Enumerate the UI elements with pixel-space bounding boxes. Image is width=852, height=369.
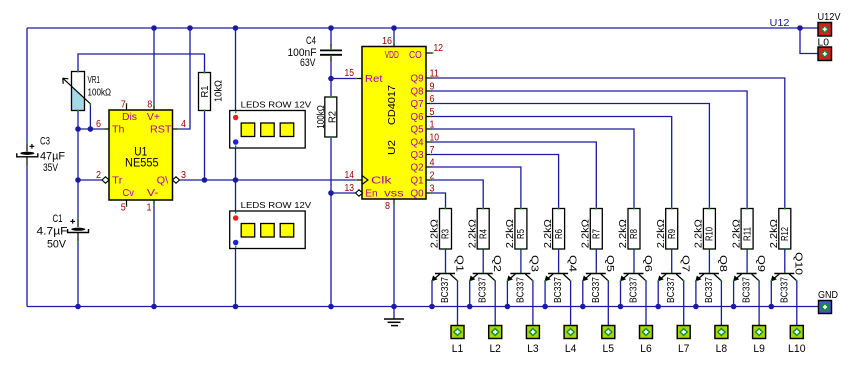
R7 name label xyxy=(592,229,603,239)
svg-text:R1: R1 xyxy=(200,85,211,97)
R6 value label 2.2k&#937; xyxy=(543,219,554,249)
U2 pin name Q1 xyxy=(411,176,424,187)
U2 pin name Q3 xyxy=(411,150,424,161)
Q3 name label xyxy=(529,255,540,273)
U2 pin name Clk xyxy=(371,176,393,187)
wire Q2 collector to L2 xyxy=(494,281,496,326)
svg-text:R10: R10 xyxy=(705,227,716,241)
U2 pin name Ret xyxy=(365,74,383,85)
U2 pin name Q2 xyxy=(411,163,424,174)
U2 pin number 16 xyxy=(382,36,392,47)
wire Q7 to R10 xyxy=(426,104,709,209)
svg-text:BC337: BC337 xyxy=(629,277,640,303)
svg-text:BC337: BC337 xyxy=(779,277,790,303)
transistor Q9 BC337 xyxy=(734,272,760,282)
resistor R12 xyxy=(779,208,791,251)
Q2 value label BC337 xyxy=(478,277,489,303)
svg-text:4.7µF: 4.7µF xyxy=(37,226,68,238)
junction C1 / ground bus xyxy=(75,304,81,310)
LED row 2 anode dot xyxy=(233,215,239,221)
U1 pin number 2 xyxy=(96,170,101,181)
svg-text:Q5: Q5 xyxy=(411,125,424,136)
U2 pin number 14 xyxy=(345,170,355,181)
svg-text:2.2kΩ: 2.2kΩ xyxy=(505,219,516,249)
wire VR1 wiper drop xyxy=(89,104,91,129)
Q8 value label BC337 xyxy=(704,277,715,303)
R2 name label xyxy=(328,111,339,123)
junction LED row 2 / ground bus xyxy=(233,304,239,310)
svg-text:13: 13 xyxy=(345,183,355,194)
svg-text:VR1: VR1 xyxy=(88,75,101,86)
wire top +12V rail xyxy=(27,27,818,29)
wire Q7 collector to L7 xyxy=(683,281,685,326)
U2 pin name Q7 xyxy=(411,99,424,110)
resistor R11 xyxy=(741,208,753,251)
wire R4 to Q2 base xyxy=(482,249,484,273)
svg-text:RST: RST xyxy=(150,125,172,136)
svg-text:Q7: Q7 xyxy=(680,255,691,273)
U2 pin name Q0 xyxy=(411,189,424,200)
wire Q2 to R5 xyxy=(426,167,521,209)
wire Tr pin 2 xyxy=(78,179,102,181)
svg-text:Q2: Q2 xyxy=(491,255,502,273)
U2 pin name Q4 xyxy=(411,138,424,149)
U1 pin 3 Q output diamond xyxy=(173,177,180,183)
junction Q9 emitter / ground bus xyxy=(731,304,737,310)
Q5 value label BC337 xyxy=(591,277,602,303)
junction V- / ground bus xyxy=(151,304,157,310)
Q7 value label BC337 xyxy=(666,277,677,303)
resistor R2 xyxy=(325,96,337,138)
junction Th node xyxy=(75,126,81,132)
svg-text:L8: L8 xyxy=(716,343,728,355)
svg-text:7: 7 xyxy=(430,145,435,156)
Q6 name label xyxy=(642,255,653,273)
U2 pin number 10 xyxy=(430,133,440,144)
svg-text:Q6: Q6 xyxy=(642,255,653,273)
wire C4 top drop xyxy=(330,28,332,45)
junction Q7 emitter / ground bus xyxy=(655,304,661,310)
connector GND xyxy=(819,301,832,314)
counter U2 CD4017 body xyxy=(356,41,434,206)
svg-text:Q9: Q9 xyxy=(755,255,766,273)
transistor Q3 BC337 xyxy=(507,272,533,282)
R10 name label xyxy=(705,227,716,241)
connector L5 label xyxy=(603,343,615,355)
U2 pin number 15 xyxy=(345,68,355,79)
U2 pin name VDD xyxy=(385,50,399,61)
capacitor C4 xyxy=(320,44,342,61)
svg-text:Q9: Q9 xyxy=(411,74,424,85)
svg-text:BC337: BC337 xyxy=(742,277,753,303)
junction top rail / RST xyxy=(187,25,193,31)
junction top rail / LED row 1 xyxy=(233,25,239,31)
svg-text:BC337: BC337 xyxy=(591,277,602,303)
svg-text:V+: V+ xyxy=(147,112,160,123)
connector L1 label xyxy=(452,343,464,355)
U1 pin 2 Tr input diamond xyxy=(102,177,109,183)
U1 pin name Cv xyxy=(123,188,135,199)
svg-text:Q\: Q\ xyxy=(157,176,169,187)
wire R2 bottom to En and ground bus xyxy=(330,137,332,307)
svg-text:NE555: NE555 xyxy=(125,158,159,170)
wire VSS pin 8 to ground bus xyxy=(393,204,395,307)
potentiometer VR1 xyxy=(63,71,91,112)
node U12 label xyxy=(770,17,790,29)
svg-text:63V: 63V xyxy=(300,57,316,69)
svg-text:2.2kΩ: 2.2kΩ xyxy=(731,219,742,249)
svg-text:Th: Th xyxy=(112,125,125,136)
wire R1 bottom to Q output line xyxy=(204,111,206,181)
C3 voltage label 35V xyxy=(43,162,59,174)
C1 name label xyxy=(53,213,63,225)
svg-text:8: 8 xyxy=(147,100,152,111)
resistor R3 xyxy=(440,208,452,251)
U2 Clk input triangle xyxy=(362,176,368,185)
svg-text:3: 3 xyxy=(430,184,435,195)
connector L4 xyxy=(564,326,577,339)
U2 pin number 1 xyxy=(430,120,435,131)
wire V- pin 1 to ground bus xyxy=(153,205,155,307)
connector L9 xyxy=(753,326,766,339)
connector L7 xyxy=(677,326,690,339)
Q1 name label xyxy=(453,255,464,273)
junction top rail / VDD xyxy=(391,25,397,31)
svg-text:47µF: 47µF xyxy=(40,151,65,163)
U1 pin number 6 xyxy=(96,119,101,130)
LED row module 2 body xyxy=(230,211,306,249)
svg-text:2.2kΩ: 2.2kΩ xyxy=(543,219,554,249)
svg-text:5: 5 xyxy=(121,203,126,214)
resistor R4 xyxy=(477,208,489,251)
U1 pin name V- xyxy=(147,188,159,199)
wire Q9 collector to L9 xyxy=(758,281,760,326)
connector L4 label xyxy=(565,343,577,355)
svg-text:GND: GND xyxy=(818,290,838,301)
U2 pin number 12 xyxy=(434,43,444,54)
svg-text:CD4017: CD4017 xyxy=(387,85,398,125)
U2 pin number 7 xyxy=(430,145,435,156)
connector L7 label xyxy=(678,343,690,355)
svg-text:R9: R9 xyxy=(667,229,678,239)
svg-text:Q10: Q10 xyxy=(793,252,804,276)
svg-text:2: 2 xyxy=(96,170,101,181)
C4 voltage label 63V xyxy=(300,57,316,69)
R2 value label 100k&#937; xyxy=(316,105,327,129)
Q9 value label BC337 xyxy=(742,277,753,303)
U1 pin name Tr xyxy=(112,176,123,187)
wire VR1 bottom / C1 vertical xyxy=(77,111,79,218)
capacitor C3 (polarized) xyxy=(17,142,38,167)
junction Q2 emitter / ground bus xyxy=(467,304,473,310)
wire Th node horizontal xyxy=(78,128,104,130)
svg-text:Q1: Q1 xyxy=(453,255,464,273)
svg-text:C1: C1 xyxy=(53,213,63,225)
U1 pin name Q\ xyxy=(157,176,169,187)
svg-text:100kΩ: 100kΩ xyxy=(88,88,112,99)
wire Q8 emitter to ground bus xyxy=(695,281,697,307)
svg-text:2.2kΩ: 2.2kΩ xyxy=(769,219,780,249)
svg-text:R7: R7 xyxy=(592,229,603,239)
svg-text:R6: R6 xyxy=(554,229,565,239)
wire Q9 emitter to ground bus xyxy=(733,281,735,307)
resistor R10 xyxy=(703,208,715,251)
U1 pin number 7 xyxy=(121,100,126,111)
svg-text:vss: vss xyxy=(384,189,404,200)
svg-text:Q5: Q5 xyxy=(604,255,615,273)
junction Q1 emitter / ground bus xyxy=(429,304,435,310)
U2 pin number 13 xyxy=(345,183,355,194)
U2 pin number 8 xyxy=(385,201,390,212)
wire Q6 collector to L6 xyxy=(645,281,647,326)
wire Q8 collector to L8 xyxy=(720,281,722,326)
Q8 name label xyxy=(717,255,728,273)
U1 pin name Dis xyxy=(122,112,137,123)
svg-text:R3: R3 xyxy=(441,229,452,239)
connector L10 label xyxy=(788,343,806,355)
LED row 1 cathode dot xyxy=(233,139,239,145)
U2 pin name CO xyxy=(409,50,422,61)
op-amp timer U1 NE555 body xyxy=(103,103,179,207)
junction top rail / C4 xyxy=(328,25,334,31)
U1 pin number 4 xyxy=(181,119,186,130)
R3 name label xyxy=(441,229,452,239)
transistor Q2 BC337 xyxy=(470,272,496,282)
svg-text:L0: L0 xyxy=(818,38,830,49)
transistor Q5 BC337 xyxy=(583,272,609,282)
junction Q8 emitter / ground bus xyxy=(693,304,699,310)
svg-text:BC337: BC337 xyxy=(704,277,715,303)
connector L10 xyxy=(790,326,803,339)
C1 voltage label 50V xyxy=(47,239,67,251)
wire RST pin 4 to top rail xyxy=(178,28,190,129)
wire Q10 collector to L10 xyxy=(796,281,798,326)
wire Q0 to R3 xyxy=(426,193,446,209)
wire Q3 collector to L3 xyxy=(532,281,534,326)
connector L2 xyxy=(489,326,502,339)
U2 pin number 5 xyxy=(430,107,435,118)
svg-text:Dis: Dis xyxy=(122,112,137,123)
wire Q6 to R9 xyxy=(426,117,672,209)
LED row 1 pin ticks xyxy=(235,111,237,147)
transistor Q4 BC337 xyxy=(545,272,571,282)
U1 pin number 1 xyxy=(147,203,152,214)
U2 pin name En xyxy=(365,189,377,200)
svg-text:L7: L7 xyxy=(678,343,690,355)
U2 pin name Q5 xyxy=(411,125,424,136)
svg-text:Q7: Q7 xyxy=(411,99,424,110)
svg-text:2.2kΩ: 2.2kΩ xyxy=(656,219,667,249)
R3 value label 2.2k&#937; xyxy=(430,219,441,249)
R4 value label 2.2k&#937; xyxy=(467,219,478,249)
wire VR1 top to R1 top xyxy=(78,54,205,73)
R9 value label 2.2k&#937; xyxy=(656,219,667,249)
svg-text:L10: L10 xyxy=(788,343,806,355)
svg-text:5: 5 xyxy=(430,107,435,118)
svg-text:Q4: Q4 xyxy=(566,255,577,273)
wire Q2 emitter to ground bus xyxy=(469,281,471,307)
svg-text:Ret: Ret xyxy=(365,74,383,85)
U2 value label CD4017 xyxy=(387,85,398,125)
wire Q4 emitter to ground bus xyxy=(544,281,546,307)
svg-text:2: 2 xyxy=(430,171,435,182)
capacitor C1 (polarized) xyxy=(68,218,89,243)
R7 value label 2.2k&#937; xyxy=(581,219,592,249)
resistor R6 xyxy=(553,208,565,251)
LED row 2 label LEDS ROW 12V xyxy=(241,201,312,210)
svg-text:100kΩ: 100kΩ xyxy=(316,105,327,129)
LED row 2 pin ticks xyxy=(235,212,237,248)
svg-text:Cv: Cv xyxy=(123,188,135,199)
junction R2 / En xyxy=(328,190,334,196)
svg-text:R4: R4 xyxy=(478,229,489,239)
wire left rail upper segment xyxy=(26,28,28,143)
wire Q8 to R11 xyxy=(426,91,747,209)
transistor Q7 BC337 xyxy=(658,272,684,282)
VR1 value label 100k&#937; xyxy=(88,88,112,99)
svg-text:Q6: Q6 xyxy=(411,112,424,123)
wire VDD pin 16 drop xyxy=(393,28,395,42)
wire U12 node to connectors xyxy=(800,28,818,54)
wire C4 bottom to Ret pin 15 xyxy=(331,61,356,79)
svg-text:50V: 50V xyxy=(47,239,67,251)
R11 value label 2.2k&#937; xyxy=(731,219,742,249)
junction R1 / Q line xyxy=(202,177,208,183)
resistor R1 xyxy=(199,72,211,112)
LED row 1 anode dot xyxy=(233,115,239,121)
wire LED row 2 anode drop xyxy=(235,180,237,218)
junction Tr / C1 node xyxy=(75,177,81,183)
U2 pin name Q9 xyxy=(411,74,424,85)
wire Q6 emitter to ground bus xyxy=(620,281,622,307)
svg-text:VDD: VDD xyxy=(385,50,399,61)
svg-text:6: 6 xyxy=(430,94,435,105)
svg-text:16: 16 xyxy=(382,36,392,47)
C1 value label 4.7uF xyxy=(37,226,68,238)
U2 pin name Q8 xyxy=(411,87,424,98)
Q3 value label BC337 xyxy=(515,277,526,303)
connector L5 xyxy=(602,326,615,339)
wire Q3 to R6 xyxy=(426,155,559,209)
wire C1 bottom to ground bus xyxy=(77,242,79,307)
wire Q9 to R12 xyxy=(426,78,785,209)
wire LED row 1 anode drop xyxy=(235,28,237,118)
R4 name label xyxy=(478,229,489,239)
wire R3 to Q1 base xyxy=(445,249,447,273)
resistor R5 xyxy=(515,208,527,251)
junction wiper / Th xyxy=(88,126,94,132)
wire V+ pin 8 drop xyxy=(153,28,155,105)
U2 pin number 6 xyxy=(430,94,435,105)
transistor Q1 BC337 xyxy=(432,272,458,282)
Q9 name label xyxy=(755,255,766,273)
junction Q5 emitter / ground bus xyxy=(580,304,586,310)
svg-text:C3: C3 xyxy=(40,136,50,148)
svg-text:1: 1 xyxy=(147,203,152,214)
wire Q1 to R4 xyxy=(426,180,483,209)
wire R8 to Q6 base xyxy=(633,249,635,273)
svg-text:L5: L5 xyxy=(603,343,615,355)
wire Q5 collector to L5 xyxy=(607,281,609,326)
R12 value label 2.2k&#937; xyxy=(769,219,780,249)
U1 value label NE555 xyxy=(125,158,159,170)
Q1 value label BC337 xyxy=(440,277,451,303)
wire Q4 collector to L4 xyxy=(570,281,572,326)
wire R12 to Q10 base xyxy=(784,249,786,273)
R9 name label xyxy=(667,229,678,239)
C3 name label xyxy=(40,136,50,148)
svg-text:BC337: BC337 xyxy=(666,277,677,303)
U1 pin number 5 xyxy=(121,203,126,214)
U1 pin number 3 xyxy=(181,170,186,181)
svg-text:LEDS ROW 12V: LEDS ROW 12V xyxy=(241,100,312,109)
U1 pin name Th xyxy=(112,125,125,136)
Q2 name label xyxy=(491,255,502,273)
R5 value label 2.2k&#937; xyxy=(505,219,516,249)
svg-text:R8: R8 xyxy=(629,229,640,239)
Q4 name label xyxy=(566,255,577,273)
connector L8 label xyxy=(716,343,728,355)
Q4 value label BC337 xyxy=(553,277,564,303)
svg-text:R5: R5 xyxy=(516,229,527,239)
connector L3 xyxy=(526,326,539,339)
wire R11 to Q9 base xyxy=(746,249,748,273)
U2 pin number 3 xyxy=(430,184,435,195)
wire Q1 collector to L1 xyxy=(457,281,459,326)
resistor R8 xyxy=(628,208,640,251)
svg-text:C4: C4 xyxy=(306,35,316,47)
wire Q4 to R7 xyxy=(426,142,596,209)
svg-text:BC337: BC337 xyxy=(515,277,526,303)
Q5 name label xyxy=(604,255,615,273)
connector L6 label xyxy=(640,343,652,355)
svg-text:BC337: BC337 xyxy=(440,277,451,303)
svg-text:10: 10 xyxy=(430,133,440,144)
svg-text:R12: R12 xyxy=(780,227,791,241)
wire En pin 13 xyxy=(331,192,356,194)
svg-text:BC337: BC337 xyxy=(478,277,489,303)
connector L1 xyxy=(451,326,464,339)
VR1 name label xyxy=(88,75,101,86)
wire R10 to Q8 base xyxy=(708,249,710,273)
svg-text:R2: R2 xyxy=(328,111,339,123)
connector L6 xyxy=(640,326,653,339)
R6 name label xyxy=(554,229,565,239)
junction VSS / ground bus / earth xyxy=(391,304,397,310)
svg-text:7: 7 xyxy=(121,100,126,111)
wire R5 to Q3 base xyxy=(520,249,522,273)
R10 value label 2.2k&#937; xyxy=(694,219,705,249)
LED row 2 cathode dot xyxy=(233,240,239,246)
R5 name label xyxy=(516,229,527,239)
wire Q\ pin 3 to Clk pin 14 xyxy=(180,179,357,181)
connector L2 label xyxy=(489,343,501,355)
U2 pin number 9 xyxy=(430,82,435,93)
svg-text:Q1: Q1 xyxy=(411,176,424,187)
R8 name label xyxy=(629,229,640,239)
C4 value label 100nF xyxy=(288,47,317,59)
svg-text:14: 14 xyxy=(345,170,355,181)
svg-text:2.2kΩ: 2.2kΩ xyxy=(581,219,592,249)
svg-text:Q4: Q4 xyxy=(411,138,424,149)
resistor R9 xyxy=(666,208,678,251)
connector U12V label xyxy=(818,12,841,23)
Q6 value label BC337 xyxy=(629,277,640,303)
junction C4 / Ret / R2 xyxy=(328,76,334,82)
wire LED row 2 cathode to ground bus xyxy=(235,243,237,307)
wire left rail lower segment xyxy=(26,167,28,307)
R11 name label xyxy=(742,227,753,241)
